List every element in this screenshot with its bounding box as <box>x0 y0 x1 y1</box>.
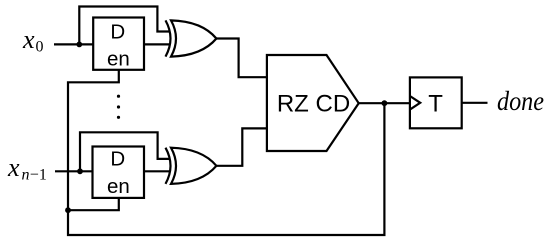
wire x0 input <box>54 43 93 45</box>
svg-text:RZ CD: RZ CD <box>277 90 350 117</box>
wire feedback x0 over register to XOR1 top input <box>79 7 170 45</box>
wire enable chain down to done feedback bus <box>68 103 384 235</box>
wire XOR2 output to RZ CD bottom input <box>216 128 267 165</box>
ellipsis (repeated bit stages) <box>117 95 120 119</box>
input label xn-1 <box>7 153 47 184</box>
node junction dot enable chain <box>65 207 71 213</box>
svg-text:x: x <box>22 25 35 54</box>
svg-text:done: done <box>497 85 544 116</box>
wire U2 Q output to XOR2 lower input <box>144 170 170 172</box>
svg-text:n: n <box>22 167 30 184</box>
xor gate X2 extra input arc <box>166 148 171 184</box>
xor gate X1 extra input arc <box>166 20 171 56</box>
input label x0 <box>22 25 44 56</box>
reduction block RZ CD outline <box>267 55 359 151</box>
wire U1 Q output to XOR1 lower input <box>144 43 170 45</box>
svg-text:0: 0 <box>36 39 44 56</box>
wire RZ CD output to T flip-flop <box>359 102 410 104</box>
D flip-flop U1 (top register) box <box>93 18 144 70</box>
node junction dot RZ CD output <box>382 100 388 106</box>
clock triangle on U3 input <box>410 96 420 110</box>
svg-text:D: D <box>110 148 125 171</box>
node junction dot on xn-1 wire <box>77 168 83 174</box>
wire U1 en pin down to enable chain <box>68 70 119 210</box>
wire xn-1 input <box>55 170 93 172</box>
svg-text:−1: −1 <box>30 167 47 184</box>
node junction dot on x0 wire <box>76 42 82 48</box>
xor gate X1 body <box>171 20 216 56</box>
xor gate X2 body <box>171 148 216 184</box>
wire XOR1 output to RZ CD top input <box>216 39 267 78</box>
wire U2 en pin to enable chain <box>68 198 119 210</box>
T flip-flop U3 box <box>410 77 462 128</box>
svg-text:x: x <box>7 153 20 182</box>
wire feedback xn-1 over register to XOR2 top input <box>80 132 171 171</box>
svg-text:en: en <box>107 48 130 71</box>
svg-text:en: en <box>107 175 130 198</box>
wire done output <box>462 102 488 104</box>
svg-text:D: D <box>110 21 125 44</box>
D flip-flop U2 (bottom register) box <box>93 147 145 198</box>
svg-text:T: T <box>428 90 443 117</box>
